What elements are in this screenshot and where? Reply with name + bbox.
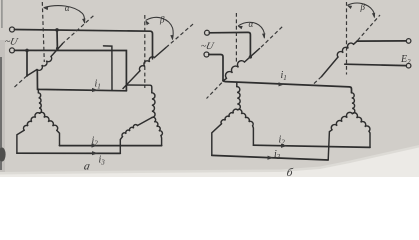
arrow i1 (circuit b)	[279, 82, 285, 86]
winding W2 axis dashed upper (circuit a)	[166, 23, 194, 47]
winding W2 solid upper segment (circuit b)	[354, 41, 358, 44]
star1 right leg coil (circuit a)	[40, 112, 58, 130]
node dot on bottom wire (circuit a)	[25, 49, 29, 53]
winding W1 solid lower segment (circuit a)	[27, 70, 37, 76]
angle arc alpha (circuit b)	[238, 22, 264, 38]
star1 right leg drop (circuit a)	[57, 130, 60, 145]
winding W1 solid upper segment (circuit a)	[51, 44, 63, 57]
star3 left leg coil (circuit b)	[221, 109, 237, 124]
winding W2 axis dashed lower (circuit b)	[312, 77, 322, 86]
star2 left leg coil (circuit a)	[122, 125, 137, 137]
star4 top coil (circuit b)	[352, 93, 355, 114]
winding W1 axis dashed upper (circuit a)	[62, 16, 94, 44]
wire i1 (circuit b)	[223, 81, 352, 93]
paper background	[0, 0, 419, 177]
arrow i3 (circuit a)	[92, 151, 98, 155]
star4 right leg coil (circuit b)	[352, 113, 370, 131]
terminal input bottom (circuit a)	[10, 48, 15, 53]
svg-text:α: α	[249, 19, 254, 29]
winding W1 coil (circuit a)	[37, 57, 52, 71]
wire i2 (circuit a)	[60, 145, 162, 147]
wire bottom (circuit a)	[15, 50, 127, 90]
winding W2 solid lower segment (circuit a)	[123, 71, 140, 89]
arrow i3 (circuit b)	[267, 156, 273, 160]
star1 left leg stub and drop (circuit a)	[17, 130, 24, 153]
wire tap vertical (circuit a)	[104, 46, 113, 90]
star2 top coil (circuit a)	[152, 93, 155, 118]
node dot on top wire (circuit a)	[55, 28, 59, 32]
wire vertical from top-wire dot (circuit a)	[56, 30, 58, 48]
winding W2 axis dashed upper (circuit b)	[358, 15, 381, 41]
wire i3 (circuit b)	[212, 155, 328, 160]
angle arc beta (circuit a)	[146, 17, 173, 39]
star1 top coil lead (circuit a)	[37, 89, 39, 93]
svg-text:β: β	[159, 15, 165, 25]
winding W1 solid upper segment (circuit b)	[245, 49, 260, 63]
reference axis dashed vertical beta (circuit b)	[346, 2, 348, 75]
star4 left leg coil (circuit b)	[331, 112, 352, 129]
node dot W1 junction (circuit a)	[56, 47, 59, 50]
winding W2 coil (circuit b)	[337, 43, 353, 57]
svg-text:β: β	[360, 2, 366, 12]
scan artifact bottom-left blob	[0, 148, 6, 162]
terminal input bottom (circuit b)	[204, 52, 209, 57]
scan artifact left dark bar	[0, 57, 2, 170]
winding W1 axis dashed lower (circuit b)	[207, 83, 222, 99]
star3 top coil (circuit b)	[237, 87, 241, 110]
wire vertical from bottom-wire dot (circuit a)	[26, 50, 28, 76]
winding W1 solid lower segment (circuit b)	[223, 78, 227, 81]
wire top (circuit b)	[209, 32, 250, 56]
star2 right leg drop (circuit a)	[160, 136, 163, 146]
star1 left leg coil (circuit a)	[24, 113, 40, 130]
node dot W1 junction (circuit b)	[249, 55, 252, 58]
star2 right leg coil (circuit a)	[152, 117, 162, 135]
star2 left leg drop (circuit a)	[120, 137, 122, 154]
angle arc beta (circuit b)	[348, 3, 375, 18]
wire i2 (circuit b)	[253, 145, 370, 147]
wire star2 feed (circuit a)	[126, 85, 151, 93]
winding W1 axis dashed upper (circuit b)	[261, 26, 284, 48]
terminal output top (circuit b)	[406, 39, 411, 44]
star3 right leg coil (circuit b)	[238, 109, 254, 125]
star4 left leg drop (circuit b)	[328, 130, 332, 160]
reference axis dashed vertical beta (circuit a)	[144, 15, 146, 88]
winding W2 solid upper segment (circuit a)	[155, 48, 167, 58]
star3 right leg drop (circuit b)	[252, 126, 255, 145]
arrow i1 (circuit a)	[92, 88, 98, 92]
arrow i2 (circuit b)	[281, 144, 287, 148]
terminal input top (circuit a)	[10, 27, 15, 32]
wire i1 (circuit a)	[37, 71, 126, 91]
wire i3 (circuit a)	[17, 152, 120, 154]
svg-text:α: α	[65, 3, 70, 13]
reference axis dashed vertical alpha (circuit a)	[42, 2, 44, 62]
angle arc alpha (circuit a)	[44, 6, 85, 24]
wire top (circuit a)	[15, 30, 153, 59]
star1 top coil (circuit a)	[38, 93, 41, 113]
star4 right leg drop (circuit b)	[369, 131, 370, 147]
terminal input top (circuit b)	[205, 30, 210, 35]
arrow i2 (circuit a)	[92, 143, 98, 147]
winding W2 solid lower segment (circuit b)	[322, 57, 339, 77]
star2 left leg line (circuit a)	[138, 118, 153, 126]
wire output top (circuit b)	[357, 40, 406, 42]
page bottom edge white band	[0, 145, 419, 177]
wire bottom (circuit b)	[209, 55, 223, 81]
winding W2 coil (circuit a)	[139, 57, 154, 71]
star3 top coil lead (circuit b)	[236, 82, 238, 86]
winding W1 axis dashed lower (circuit a)	[14, 76, 27, 88]
wire output bottom (circuit b)	[345, 64, 407, 65]
winding W1 coil (circuit b)	[225, 61, 244, 79]
star3 left leg drop (circuit b)	[212, 124, 222, 156]
reference axis dashed vertical alpha (circuit b)	[235, 13, 237, 62]
terminal output bottom (circuit b)	[406, 63, 411, 68]
